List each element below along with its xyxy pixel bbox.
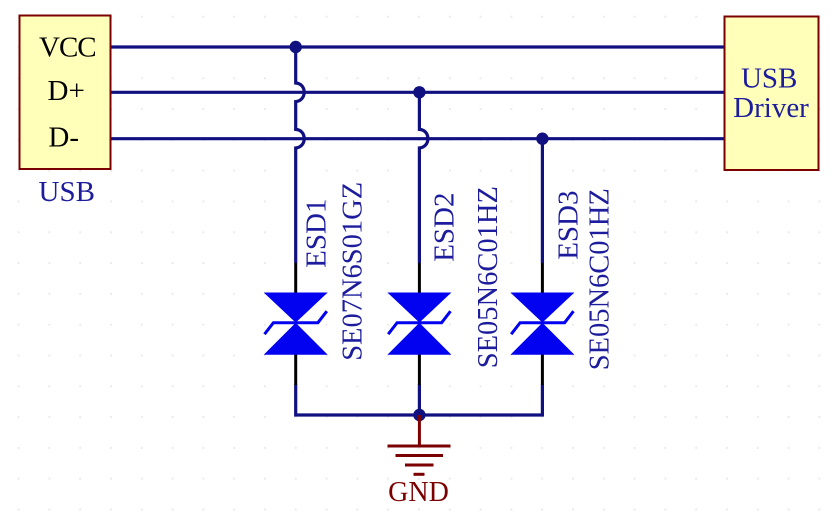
svg-text:SE05N6C01HZ: SE05N6C01HZ	[473, 186, 504, 368]
svg-text:ESD2: ESD2	[429, 193, 461, 262]
svg-text:SE07N6S01GZ: SE07N6S01GZ	[338, 182, 369, 361]
svg-text:D+: D+	[48, 75, 85, 107]
svg-text:USB: USB	[39, 176, 95, 208]
svg-text:GND: GND	[388, 477, 449, 508]
svg-text:Driver: Driver	[733, 92, 809, 124]
svg-text:ESD1: ESD1	[300, 199, 332, 268]
svg-text:VCC: VCC	[39, 32, 96, 64]
svg-text:D-: D-	[48, 122, 79, 154]
svg-text:ESD3: ESD3	[553, 191, 585, 260]
svg-text:SE05N6C01HZ: SE05N6C01HZ	[585, 188, 616, 370]
svg-text:USB: USB	[741, 63, 797, 95]
